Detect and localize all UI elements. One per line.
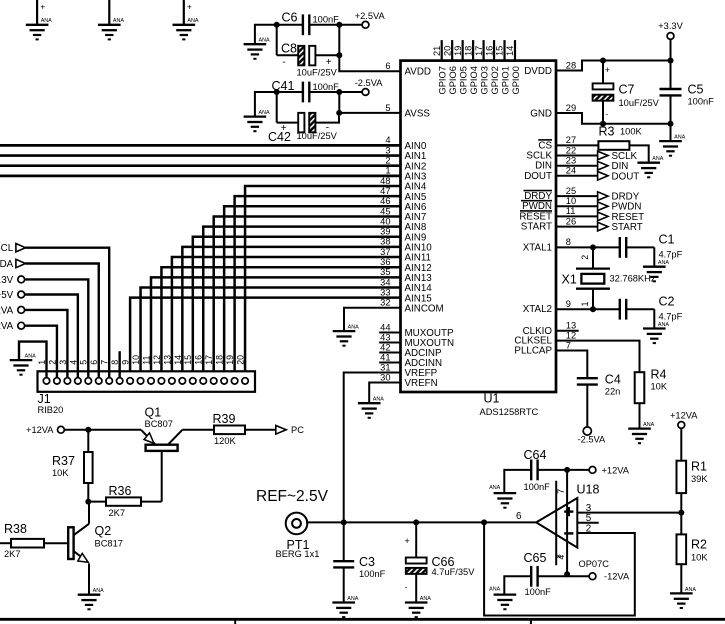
svg-text:14: 14 — [505, 46, 515, 56]
wire AIN8 to J1 pin 16 — [203, 227, 400, 378]
wire J1 pin 8 stub — [118, 351, 120, 377]
svg-text:4.7pF: 4.7pF — [659, 250, 683, 260]
svg-text:15: 15 — [495, 46, 505, 56]
ground — [489, 586, 516, 609]
svg-text:12: 12 — [152, 355, 162, 365]
U1 right pin names — [514, 66, 552, 357]
wire — [670, 39, 672, 60]
svg-text:1: 1 — [385, 166, 390, 176]
capacitor C8 (polarized 10uF/25V) — [277, 41, 340, 77]
svg-text:REF~2.5V: REF~2.5V — [256, 488, 329, 505]
svg-text:ADS1258RTC: ADS1258RTC — [480, 407, 539, 417]
wire SDA to J1 pin 6 — [26, 264, 99, 378]
svg-text:GPIO7: GPIO7 — [438, 66, 448, 94]
capacitor C4 22n — [577, 372, 621, 427]
svg-text:BERG 1x1: BERG 1x1 — [276, 549, 320, 559]
wire MUXOUTN stub — [379, 342, 400, 344]
wire AIN6 to J1 pin 18 — [224, 206, 400, 377]
op-amp U18 OP07C — [536, 483, 609, 570]
ground — [405, 596, 431, 617]
svg-text:-2.5VA: -2.5VA — [355, 78, 384, 88]
svg-text:100K: 100K — [620, 127, 643, 137]
terminal +12VA — [58, 426, 65, 433]
U1 GPIO pin names — [438, 66, 521, 94]
wire AIN7 to J1 pin 17 — [214, 216, 401, 377]
wire SCL to J1 pin 7 — [26, 248, 110, 378]
svg-text:23: 23 — [566, 156, 576, 166]
wire MUXOUTP stub — [379, 332, 400, 334]
capacitor C65 100nF — [504, 551, 589, 597]
svg-text:C7: C7 — [619, 83, 635, 97]
svg-text:4.7pF: 4.7pF — [659, 312, 683, 322]
terminal +12VA op-amp — [589, 467, 596, 474]
capacitor C66 (polarized 4.7uF/35V) — [405, 522, 476, 602]
svg-text:DVDD: DVDD — [524, 66, 552, 77]
junction — [336, 22, 342, 28]
svg-text:13: 13 — [566, 321, 576, 331]
svg-text:14: 14 — [173, 355, 183, 365]
junction — [668, 58, 674, 64]
svg-text:20: 20 — [235, 355, 245, 365]
terminal +5V left — [0, 290, 25, 301]
svg-text:SCL: SCL — [0, 243, 14, 254]
wire VREFP — [344, 373, 401, 523]
svg-text:-: - — [606, 110, 609, 119]
svg-text:34: 34 — [380, 277, 390, 287]
wire — [88, 429, 141, 431]
svg-text:24: 24 — [566, 166, 576, 176]
svg-text:C42: C42 — [268, 130, 291, 144]
resistor R37 10K — [52, 430, 93, 502]
svg-text:-: - — [405, 583, 408, 592]
junction — [481, 519, 487, 525]
svg-text:ANA: ANA — [420, 596, 431, 602]
svg-text:10: 10 — [566, 196, 576, 206]
terminal +12VA divider — [678, 422, 685, 429]
svg-text:ANA: ANA — [658, 322, 669, 328]
ground — [10, 354, 36, 375]
ground — [643, 260, 669, 281]
ground — [670, 587, 696, 608]
wire — [338, 92, 340, 113]
svg-text:32.768KHz: 32.768KHz — [610, 274, 656, 284]
svg-text:GPIO4: GPIO4 — [469, 66, 479, 94]
svg-text:17: 17 — [474, 46, 484, 56]
junction — [274, 89, 280, 95]
svg-text:+5V: +5V — [0, 290, 14, 301]
svg-text:17: 17 — [204, 355, 214, 365]
svg-text:PC: PC — [291, 425, 304, 435]
resistor R36 2K7 — [88, 484, 161, 518]
svg-text:4.7uF/35V: 4.7uF/35V — [432, 567, 476, 577]
ground — [244, 38, 270, 59]
junction — [336, 89, 342, 95]
svg-text:3: 3 — [385, 145, 390, 155]
wire — [255, 25, 277, 44]
ground ANA stub 1 — [37, 0, 45, 25]
IC U1 ADS1258RTC body — [401, 61, 557, 417]
svg-text:C1: C1 — [659, 232, 675, 246]
svg-text:BC817: BC817 — [95, 538, 123, 548]
U1 left pin numbers — [380, 61, 390, 382]
svg-text:22: 22 — [566, 145, 576, 155]
svg-text:C5: C5 — [688, 83, 704, 97]
svg-text:-: - — [282, 57, 285, 68]
wire AIN9 to J1 pin 15 — [193, 237, 401, 378]
svg-text:6: 6 — [385, 61, 390, 71]
svg-text:8: 8 — [566, 237, 571, 247]
wire REF node — [306, 521, 536, 523]
svg-text:25: 25 — [566, 186, 576, 196]
svg-text:R2: R2 — [691, 538, 707, 552]
U1 GPIO pin stubs 21-14 — [432, 40, 515, 61]
svg-text:40: 40 — [380, 216, 390, 226]
svg-text:31: 31 — [380, 362, 390, 372]
capacitor C5 100nF — [660, 61, 715, 124]
svg-text:16: 16 — [484, 46, 494, 56]
svg-text:27: 27 — [566, 135, 576, 145]
svg-text:37: 37 — [380, 247, 390, 257]
svg-text:41: 41 — [380, 352, 390, 362]
capacitor C42 (polarized 10uF/25V) — [268, 113, 339, 144]
svg-text:START: START — [612, 222, 643, 233]
svg-text:R38: R38 — [4, 522, 27, 536]
ground — [637, 156, 663, 177]
op-amp supply line — [566, 470, 568, 574]
svg-text:2K7: 2K7 — [109, 508, 126, 518]
svg-text:2: 2 — [580, 255, 590, 260]
ground — [628, 422, 654, 443]
wire AIN15 to J1 pin 9 — [130, 298, 400, 378]
svg-text:16: 16 — [194, 355, 204, 365]
wire AIN13 to J1 pin 11 — [151, 277, 401, 377]
terminal +3.3V — [667, 33, 674, 40]
capacitor C6 — [277, 10, 363, 35]
signal flag SCL — [0, 243, 25, 254]
svg-text:DOUT: DOUT — [524, 171, 552, 182]
svg-text:15: 15 — [183, 355, 193, 365]
wire AIN3 bus — [0, 175, 401, 178]
svg-text:100nF: 100nF — [313, 82, 340, 92]
svg-text:+12VA: +12VA — [26, 425, 54, 435]
junction — [600, 121, 606, 127]
svg-text:1: 1 — [580, 302, 590, 307]
wire +5V to J1 pin 4 — [25, 295, 78, 378]
signal flag SDA — [0, 259, 25, 270]
transistor Q2 BC817 — [68, 502, 123, 595]
svg-text:+2.5VA: +2.5VA — [355, 11, 386, 21]
svg-text:29: 29 — [566, 103, 576, 113]
svg-text:R36: R36 — [109, 484, 132, 498]
svg-text:19: 19 — [225, 355, 235, 365]
signal flag DOUT — [556, 171, 639, 182]
svg-text:21: 21 — [432, 46, 442, 56]
svg-text:+: + — [326, 57, 332, 68]
svg-text:ANA: ANA — [347, 596, 358, 602]
svg-text:START: START — [521, 222, 552, 233]
wire PLLCAP — [556, 351, 587, 379]
capacitor C64 100nF — [504, 448, 589, 493]
svg-text:ANA: ANA — [259, 38, 270, 44]
svg-text:XTAL2: XTAL2 — [523, 304, 552, 315]
capacitor C3 100nF — [333, 522, 385, 602]
op-amp + input mark — [564, 507, 573, 516]
svg-text:R37: R37 — [52, 454, 75, 468]
svg-text:C6: C6 — [282, 10, 298, 24]
junction — [85, 499, 91, 505]
wire AIN5 to J1 pin 19 — [235, 196, 401, 377]
svg-text:ANA: ANA — [25, 354, 36, 360]
wire — [255, 92, 277, 117]
svg-text:+12VA: +12VA — [670, 410, 698, 420]
wire GND pin 29 — [556, 113, 671, 124]
wire VREFN — [369, 383, 400, 404]
signal flag DRDY — [556, 192, 640, 203]
svg-text:ANA: ANA — [348, 325, 359, 331]
svg-text:47: 47 — [380, 186, 390, 196]
wire — [64, 429, 88, 431]
terminal PT1 BERG 1x1 — [276, 513, 320, 559]
junction — [590, 306, 596, 312]
svg-text:RIB20: RIB20 — [38, 405, 64, 415]
wire CLKIO stub — [556, 330, 579, 332]
svg-text:GPIO2: GPIO2 — [490, 66, 500, 94]
wire AVSS — [339, 112, 400, 114]
terminal +2.5VA — [362, 21, 369, 28]
junction — [336, 110, 342, 116]
capacitor C41 — [272, 79, 363, 102]
svg-text:ANA: ANA — [373, 397, 384, 403]
svg-text:35: 35 — [380, 267, 390, 277]
wire AVDD — [339, 25, 400, 71]
svg-text:36: 36 — [380, 257, 390, 267]
junction — [336, 52, 342, 58]
svg-text:4: 4 — [385, 135, 390, 145]
U1 right pin numbers — [566, 60, 576, 350]
wire AIN12 to J1 pin 12 — [161, 267, 400, 377]
ground — [78, 588, 104, 609]
ground — [333, 325, 359, 346]
svg-text:ANA: ANA — [489, 586, 500, 592]
svg-text:-12VA: -12VA — [604, 572, 630, 582]
transistor Q1 BC807 — [141, 405, 182, 501]
svg-text:2: 2 — [586, 523, 591, 534]
svg-text:U1: U1 — [484, 392, 500, 406]
junction — [564, 571, 570, 577]
wire AINCOM — [344, 308, 401, 331]
svg-text:22n: 22n — [605, 387, 621, 397]
svg-text:ANA: ANA — [643, 422, 654, 428]
wire pin 2 feedback — [484, 522, 635, 615]
signal flag DIN — [556, 161, 628, 172]
svg-text:ANA: ANA — [113, 18, 124, 24]
op-amp - input mark — [564, 532, 573, 534]
svg-text:39: 39 — [380, 227, 390, 237]
junction — [341, 519, 347, 525]
svg-text:19: 19 — [453, 46, 463, 56]
svg-text:100nF: 100nF — [359, 569, 386, 579]
terminal -12VA left — [0, 321, 25, 332]
svg-text:10uF/25V: 10uF/25V — [297, 68, 338, 78]
svg-text:Q1: Q1 — [145, 405, 162, 419]
svg-text:6: 6 — [516, 511, 522, 522]
svg-text:GND: GND — [530, 109, 552, 120]
signal flag SCLK — [556, 151, 638, 162]
capacitor C7 (polarized 10uF/25V) — [593, 61, 660, 124]
svg-text:+12VA: +12VA — [602, 465, 630, 475]
svg-text:R1: R1 — [691, 459, 707, 473]
sheet border line — [0, 619, 725, 624]
ground — [643, 322, 669, 343]
svg-text:13: 13 — [162, 355, 172, 365]
wire +3.3V to J1 pin 5 — [25, 279, 89, 377]
svg-text:C64: C64 — [524, 448, 547, 462]
svg-text:ANA: ANA — [489, 485, 500, 491]
svg-text:5: 5 — [385, 103, 390, 113]
J1 pin numbers — [37, 355, 246, 365]
wire — [670, 124, 672, 141]
wire XTAL1 pin 8 — [556, 246, 593, 248]
resistor R4 10K — [635, 367, 668, 428]
svg-text:C4: C4 — [605, 372, 621, 386]
svg-text:GPIO0: GPIO0 — [511, 66, 521, 94]
svg-text:ANA: ANA — [652, 156, 663, 162]
svg-text:18: 18 — [215, 355, 225, 365]
connector J1 RIB20 — [38, 371, 256, 415]
signal flag PC — [276, 425, 304, 435]
svg-text:38: 38 — [380, 237, 390, 247]
svg-text:100nF: 100nF — [688, 97, 715, 107]
svg-text:100nF: 100nF — [525, 587, 552, 597]
svg-text:Q2: Q2 — [95, 524, 112, 538]
wire -12VA to J1 pin 2 — [25, 326, 57, 378]
wire J1 pin 1 to ground — [19, 342, 47, 378]
svg-text:C8: C8 — [281, 41, 297, 55]
wire DVDD pin 28 — [556, 61, 671, 71]
capacitor C1 4.7pF — [593, 232, 683, 266]
svg-text:10uF/25V: 10uF/25V — [297, 131, 338, 141]
svg-text:GPIO6: GPIO6 — [448, 66, 458, 94]
junction — [413, 519, 419, 525]
wire AIN0 bus — [0, 144, 401, 147]
svg-text:43: 43 — [380, 332, 390, 342]
svg-text:18: 18 — [463, 46, 473, 56]
svg-text:ANA: ANA — [187, 18, 198, 24]
wire AIN10 to J1 pin 14 — [182, 247, 400, 378]
svg-text:+3.3V: +3.3V — [658, 21, 683, 31]
svg-text:C65: C65 — [524, 551, 547, 565]
wire — [276, 25, 278, 56]
junction — [564, 467, 570, 473]
signal flag START — [556, 222, 643, 233]
svg-text:+: + — [405, 536, 410, 546]
wire — [276, 92, 278, 123]
svg-text:X1: X1 — [562, 273, 577, 287]
svg-text:DOUT: DOUT — [612, 171, 640, 182]
svg-text:GPIO5: GPIO5 — [458, 66, 468, 94]
ground ANA stub 2 — [108, 0, 110, 25]
wire AIN14 to J1 pin 10 — [141, 288, 401, 378]
svg-text:32: 32 — [380, 298, 390, 308]
resistor R2 10K — [677, 534, 709, 593]
terminal +12VA left — [0, 305, 25, 316]
svg-text:9: 9 — [566, 299, 571, 309]
svg-text:45: 45 — [380, 206, 390, 216]
wire ADCINN stub — [379, 362, 400, 364]
svg-text:GPIO3: GPIO3 — [479, 66, 489, 94]
wire pin 3 to divider — [577, 512, 681, 514]
svg-text:10uF/25V: 10uF/25V — [619, 98, 660, 108]
wire pin 5 stub — [577, 522, 598, 524]
junction — [274, 22, 280, 28]
signal flag PWDN — [556, 202, 641, 213]
junction — [668, 121, 674, 127]
svg-text:+3.3V: +3.3V — [0, 275, 14, 286]
svg-text:7: 7 — [556, 489, 566, 494]
svg-text:R3: R3 — [599, 124, 615, 138]
signal flag RESET — [556, 212, 644, 223]
svg-text:BC807: BC807 — [145, 419, 173, 429]
capacitor C2 4.7pF — [593, 294, 683, 328]
svg-text:J1: J1 — [38, 392, 51, 406]
svg-text:PLLCAP: PLLCAP — [514, 346, 552, 357]
svg-text:C2: C2 — [659, 294, 675, 308]
junction — [85, 427, 91, 433]
resistor R38 2K7 — [0, 522, 68, 559]
resistor R3 100K — [556, 124, 649, 162]
svg-text:AINCOM: AINCOM — [405, 303, 444, 314]
wire AIN11 to J1 pin 13 — [172, 257, 401, 377]
svg-text:33: 33 — [380, 287, 390, 297]
ground ANA stub 3 — [184, 0, 192, 25]
svg-text:GPIO1: GPIO1 — [500, 66, 510, 94]
svg-text:7: 7 — [566, 340, 571, 350]
wire +12VA to J1 pin 3 — [25, 310, 68, 378]
svg-text:VREFN: VREFN — [405, 378, 438, 389]
wire ADCINP stub — [379, 352, 400, 354]
terminal +3.3V left — [0, 275, 25, 286]
svg-text:R39: R39 — [213, 412, 236, 426]
svg-text:20: 20 — [442, 46, 452, 56]
svg-text:AVDD: AVDD — [405, 67, 432, 78]
svg-text:100nF: 100nF — [524, 482, 551, 492]
op-amp power pin line 7/4 — [556, 481, 566, 565]
wire CLKSEL — [556, 341, 640, 373]
ground — [489, 485, 516, 508]
svg-text:ANA: ANA — [41, 18, 52, 24]
wire AIN1 bus — [0, 154, 401, 157]
svg-text:ANA: ANA — [674, 135, 685, 141]
svg-text:-12VA: -12VA — [0, 321, 14, 332]
svg-text:39K: 39K — [691, 474, 708, 484]
svg-text:R4: R4 — [651, 367, 667, 381]
ground — [659, 135, 685, 156]
svg-text:48: 48 — [380, 176, 390, 186]
svg-text:11: 11 — [141, 356, 151, 365]
svg-text:SDA: SDA — [0, 259, 14, 270]
crystal X1 32.768KHz — [562, 247, 656, 309]
ground — [332, 596, 358, 617]
svg-text:100nF: 100nF — [313, 15, 340, 25]
svg-text:U18: U18 — [577, 483, 600, 497]
junction — [600, 58, 606, 64]
svg-text:OP07C: OP07C — [579, 559, 610, 569]
ground — [244, 110, 270, 131]
terminal -2.5VA — [583, 427, 591, 435]
svg-text:26: 26 — [566, 216, 576, 226]
svg-text:ANA: ANA — [93, 588, 104, 594]
resistor R39 120K — [182, 412, 275, 446]
